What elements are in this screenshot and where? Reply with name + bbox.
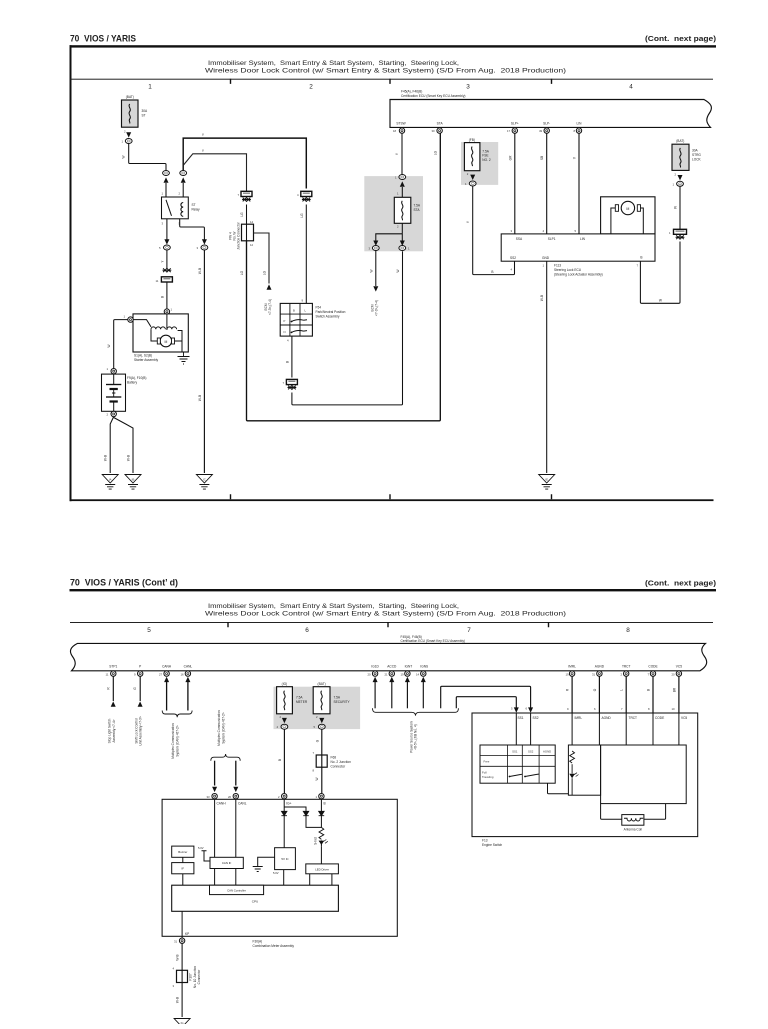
resistor meter [319,827,324,839]
battery label [127,376,146,384]
svg-text:AGND: AGND [602,716,612,720]
arrow right [400,241,405,246]
SS wires inside [516,713,530,745]
wire to relay pin 2 [182,183,184,197]
F58 rotated label [229,221,241,249]
svg-text:STA: STA [414,208,421,212]
svg-text:F54: F54 [316,306,322,310]
svg-text:Immobiliser System, Smart Ent: Immobiliser System, Smart Entry & Start … [208,603,459,610]
svg-text:CANH: CANH [162,665,172,669]
SS2 feed wire [441,686,531,710]
svg-text:W-B: W-B [176,954,180,960]
ground IC [196,475,212,490]
column ticks top [231,79,552,84]
svg-text:21: 21 [385,672,389,676]
svg-text:IA: IA [109,478,112,482]
svg-text:W-B: W-B [198,268,202,274]
branch left to oval [376,234,403,241]
svg-text:Combination Meter Assembly: Combination Meter Assembly [253,944,295,948]
wire R to stop light switch [112,676,114,701]
svg-text:S1(A), S2(B): S1(A), S2(B) [134,354,152,358]
svg-text:<7-3>,(7-4): <7-3>,(7-4) [375,300,379,316]
link E [669,229,687,235]
arrow ECM [373,286,378,291]
branch to diode 2 [284,807,306,811]
header rule bottom [70,589,717,591]
pin numbers above engine switch [567,707,675,711]
wire W starter to battery [114,320,128,369]
svg-text:14: 14 [250,220,254,224]
arrow [400,181,405,186]
wire relay coil to ground column [180,219,205,240]
svg-text:TRCT: TRCT [629,716,638,720]
svg-text:W: W [396,269,400,272]
svg-text:System (CAN) <67-2>: System (CAN) <67-2> [221,712,225,743]
svg-text:(Cont. next page): (Cont. next page) [645,34,717,43]
fuse 7.5A STA [394,197,421,228]
ground IB [125,475,141,490]
svg-text:LIN: LIN [580,237,586,241]
arrow [470,175,475,180]
wire GND to ground [546,261,548,473]
P-N switch label [316,306,346,319]
fuse 7.5A SECURITY [313,687,350,719]
chevrons under link B [242,198,251,202]
engine switch pin labels inside [518,716,688,720]
ECU pin labels [396,121,582,125]
arrow left [373,241,378,246]
svg-text:W-B: W-B [176,997,180,1003]
svg-text:Steering Lock ECU: Steering Lock ECU [554,268,582,272]
wire IF-CPU [182,874,184,885]
meter pin labels inside [217,802,326,806]
svg-text:B: B [160,296,164,298]
svg-text:19: 19 [566,672,570,676]
wire W-B below meter [181,943,183,1017]
svg-text:31: 31 [174,939,178,943]
wire buzzer-IF [182,857,184,862]
connector oval STA top [395,175,406,180]
svg-text:TRCT: TRCT [622,665,631,669]
svg-text:F13: F13 [482,839,488,843]
svg-text:AGND: AGND [543,750,551,754]
battery [102,374,126,411]
shift lock dest label [134,716,142,746]
wire branch to ECM [254,233,270,284]
svg-text:Immobiliser System, Smart Ent: Immobiliser System, Smart Entry & Start … [208,60,459,67]
wire security fuse to F68 [321,729,323,793]
pin numbers SS [511,707,528,711]
svg-text:7.5A: 7.5A [482,149,489,153]
arrow up [138,701,143,706]
wire STSW to STA fuse [401,133,403,174]
svg-text:F30(A): F30(A) [253,940,263,944]
svg-text:70 VIOS / YARIS: 70 VIOS / YARIS [70,33,136,43]
arrows into engine switch [514,707,533,712]
antenna coil wires [601,804,666,820]
wires ECU to engine switch [572,676,679,713]
svg-text:31: 31 [592,672,596,676]
svg-text:LG: LG [433,150,437,155]
svg-text:VC5: VC5 [676,665,682,669]
fuse 30A STRG LOCK (BAT) [672,139,702,176]
wire SLP+ [514,133,516,234]
svg-text:IB: IB [132,478,135,482]
CAN IF box [210,857,243,868]
junction connector F58 [242,220,254,247]
svg-text:B: B [285,361,289,363]
svg-text:VC5: VC5 [681,716,687,720]
steering lock ECU box [501,234,655,261]
power source label [409,721,417,753]
svg-text:6: 6 [305,627,309,634]
brace CAN upper [162,711,192,718]
connector node fuse ST [122,139,133,144]
svg-text:Connector: Connector [331,764,347,768]
power source wires IG1D ACCD IGNT IGNS [373,677,426,709]
certification ECU box [390,100,711,128]
svg-text:12: 12 [250,243,254,247]
combination meter pins [212,794,324,799]
chevrons under link C [302,198,311,202]
svg-text:IF: IF [182,866,185,870]
LED driver to CPU stubs [310,874,332,885]
starter assembly [133,314,188,352]
svg-text:METER: METER [296,700,308,704]
svg-text:IE: IE [545,478,548,482]
svg-text:F45(A), F46(B): F45(A), F46(B) [401,90,422,94]
wire color labels [566,687,677,692]
inner wires to modules [572,713,679,745]
svg-text:LG: LG [240,212,244,217]
svg-text:Connector: Connector [197,969,201,985]
svg-text:10: 10 [672,707,676,711]
LED driver box [306,864,339,874]
ECU3 pin labels [109,665,682,669]
svg-text:5V IC: 5V IC [281,857,288,861]
wire CPU to bottom pin [181,911,183,938]
starter pin circle [164,308,172,315]
wire CANL inside [235,799,237,857]
ground IG bottom [174,1019,190,1029]
svg-text:20: 20 [228,795,232,799]
svg-text:7.5A: 7.5A [334,696,341,700]
svg-text:Battery: Battery [127,380,138,384]
wire FSE to steering lock ECU [473,186,515,275]
svg-text:Buzzer: Buzzer [178,850,187,854]
svg-text:Wireless Door Lock Control (w/: Wireless Door Lock Control (w/ Smart Ent… [205,68,566,75]
header rule / frame top [70,45,717,47]
svg-text:B: B [647,689,651,691]
svg-text:IMRL: IMRL [568,665,576,669]
svg-text:CANL: CANL [184,665,193,669]
brace power source [373,708,459,715]
wire G to shift lock [139,676,141,701]
ECM ref label [371,300,379,316]
svg-text:SECURITY: SECURITY [334,700,351,704]
svg-text:2: 2 [309,84,313,91]
svg-text:IGNS: IGNS [420,665,428,669]
svg-text:19: 19 [401,672,405,676]
arrow ECM ref [267,284,272,289]
svg-text:18: 18 [393,129,397,133]
connector oval meter fuse [277,724,288,729]
frame bottom border [70,499,714,501]
starter left pin [124,315,134,323]
svg-text:W: W [107,344,111,347]
engine switch label [482,839,502,847]
connector oval relay pin2 [180,171,187,176]
link D [283,379,298,385]
svg-text:70 VIOS / YARIS (Cont’ d): 70 VIOS / YARIS (Cont’ d) [70,578,178,588]
svg-text:AGND: AGND [595,665,605,669]
svg-text:IGNT: IGNT [405,665,413,669]
svg-text:<8-5>, (J/B No. 4): <8-5>, (J/B No. 4) [414,724,418,749]
wire CANH to meter [214,761,216,786]
svg-text:17: 17 [507,129,511,133]
CPU box [172,885,339,911]
arrow into connector [126,132,131,137]
svg-text:STRG: STRG [692,153,701,157]
switch table [480,745,555,783]
ground IE [539,475,555,490]
svg-text:(FB): (FB) [469,138,475,142]
svg-text:SS2: SS2 [510,256,516,260]
wire IG+ inside [283,799,285,811]
svg-text:8: 8 [626,627,630,634]
arrow [678,175,683,180]
svg-text:SLP-: SLP- [543,121,550,125]
connector oval A [159,245,170,250]
svg-text:M: M [626,207,629,211]
ECU3 pin circles [111,671,682,676]
svg-text:16: 16 [181,672,185,676]
svg-text:11: 11 [156,279,159,283]
wire Y upper run to P-N switch [183,138,306,188]
wire CANH inside [214,799,216,857]
svg-text:CAN Controller: CAN Controller [227,889,246,893]
certification ECU top label [401,90,465,98]
wire LG upper [246,205,248,241]
svg-text:NO. 2: NO. 2 [482,158,491,162]
battery top pin [107,367,117,374]
svg-text:B: B [324,802,326,806]
svg-text:(IG): (IG) [282,682,288,686]
wire battery to ground IB [114,418,133,474]
starter internal ground [178,352,190,364]
connector oval relay pin1 [163,171,170,176]
svg-text:IC: IC [203,478,206,482]
SS1 feed wire [456,697,516,710]
svg-text:LG: LG [240,270,244,275]
diode 1 [281,811,287,815]
stop light dest label [108,718,116,743]
wire W-B long to ground [203,250,205,473]
wire CANL to meter [235,761,237,786]
svg-text:(Steering Lock Actuator Assemb: (Steering Lock Actuator Assembly) [554,273,603,277]
arrow [282,718,287,723]
svg-text:S-Ind: S-Ind [314,837,318,845]
F107 label rotated [189,966,202,988]
arrow [319,718,324,723]
wire from P-N to STA fuse column [292,251,403,405]
arrow [164,239,169,244]
svg-text:CODE: CODE [655,716,664,720]
title separator [70,622,713,623]
wire Y lower run to ST link [183,154,246,192]
transponder box [601,745,687,804]
svg-text:Antenna Coil: Antenna Coil [624,827,643,831]
svg-text:Unit Assembly <7-3>: Unit Assembly <7-3> [139,716,143,746]
svg-text:27: 27 [159,672,163,676]
svg-text:5.0V: 5.0V [273,871,279,875]
junction connector F107 [173,967,188,988]
connector link A [156,277,173,283]
steering lock motor box [601,197,655,234]
svg-text:(BAT): (BAT) [126,95,134,99]
wire to relay pin 1 [165,183,167,197]
svg-text:5: 5 [147,627,151,634]
svg-text:B: B [491,270,493,274]
gray block meter fuses [274,687,361,729]
svg-text:ST: ST [192,203,196,207]
wire LIN [578,133,580,234]
svg-text:GND: GND [542,256,550,260]
ECU2 bottom pin labels [510,255,642,260]
svg-text:CANL: CANL [238,802,247,806]
fuse 7.5A FSE NO.2 [464,143,490,176]
wire battery to ground IA [110,417,114,473]
wire CANH from ECU [164,677,169,711]
connector oval STA right [399,246,410,251]
IF box [172,863,194,874]
chevrons above link A [163,268,172,272]
svg-text:KP: KP [185,932,189,936]
svg-text:Wireless Door Lock Control (w/: Wireless Door Lock Control (w/ Smart Ent… [205,611,566,618]
svg-text:30: 30 [432,129,436,133]
column ticks [228,622,549,627]
wire fuse to branch [401,223,403,234]
svg-text:14: 14 [416,672,420,676]
wire relay out to starter column [166,219,168,240]
wire 5VIC to CPU [283,870,285,886]
battery bottom pin [107,411,117,416]
svg-text:20: 20 [368,672,372,676]
svg-text:IG+: IG+ [286,802,291,806]
CAN system label 1 [171,723,179,759]
certification ECU box (bottom) [70,643,706,670]
svg-text:3: 3 [466,84,470,91]
svg-text:W-B: W-B [127,455,131,461]
wire B inside [320,799,322,811]
steering lock ECU label [554,264,603,277]
svg-text:1: 1 [148,84,152,91]
svg-text:7.5A: 7.5A [296,696,303,700]
svg-text:L: L [620,689,624,691]
connector oval FSE [465,181,476,186]
svg-text:Starter Assembly: Starter Assembly [134,358,158,362]
svg-text:Engine Switch: Engine Switch [482,843,502,847]
male arrow [164,177,169,182]
svg-text:CODE: CODE [648,665,657,669]
svg-text:FSE: FSE [482,154,488,158]
svg-text:W: W [674,206,678,209]
immobiliser amplifier box [568,745,600,795]
svg-text:M: M [164,340,167,344]
wire LG main to ECU STA [247,133,441,420]
fuse 7.5A METER [277,687,308,719]
svg-text:5.0V: 5.0V [198,846,204,850]
svg-text:(BAT): (BAT) [676,139,684,143]
wire diode1 to 5V IC [283,816,285,848]
svg-text:11: 11 [106,672,109,676]
svg-text:30A: 30A [142,109,149,113]
svg-text:CPU: CPU [252,899,259,903]
connector oval security fuse [314,724,326,729]
svg-text:IMRL: IMRL [575,716,583,720]
wire B to starter [166,282,168,309]
svg-text:Certification ECU (Smart Key E: Certification ECU (Smart Key ECU Assembl… [401,639,465,643]
buzzer box [172,846,194,857]
AGND table to module wire [548,783,569,794]
svg-text:7: 7 [467,627,471,634]
5V stub [198,846,210,861]
chevrons under link D [288,386,297,390]
meter pin numbers [207,795,318,799]
wire LG to P-N switch [305,205,307,304]
combination meter box [162,799,397,936]
svg-text:STA: STA [437,121,444,125]
svg-text:W-B: W-B [104,455,108,461]
svg-text:33: 33 [207,795,211,799]
svg-text:System (CAN) <67-2>: System (CAN) <67-2> [176,725,180,756]
wire Y to link A [166,250,168,269]
svg-text:W: W [659,298,662,302]
arrow [202,239,207,244]
diode 2 [303,811,309,815]
brace CAN lower (opens up) [211,754,240,761]
ECU2 top pin labels [516,237,586,241]
CAN system label 2 [217,710,225,746]
wire W from fuse to relay column [129,144,166,171]
CAN controller box [210,885,264,894]
starter label [134,354,158,362]
svg-text:<7-3>,(7-4): <7-3>,(7-4) [268,299,272,315]
svg-text:7.5A: 7.5A [414,204,421,208]
svg-text:STP1: STP1 [109,665,117,669]
svg-text:W-B: W-B [198,395,202,401]
wire B from P-N switch [291,336,293,377]
connector oval B [197,245,208,250]
svg-text:Free: Free [484,760,490,764]
svg-text:B: B [640,255,642,259]
gray block STA fuse [364,176,423,251]
fuse 30A ST (BAT) [122,95,149,133]
svg-text:SLP1: SLP1 [548,237,556,241]
ECU pin circles [399,128,581,133]
ground IA [102,475,118,490]
svg-text:Switch Assembly: Switch Assembly [316,314,340,318]
svg-text:B: B [278,759,282,761]
gray block FSE fuse [461,142,498,185]
wire CANL from ECU [185,677,190,711]
svg-text:SSA: SSA [516,237,523,241]
svg-text:Park/Neutral Position: Park/Neutral Position [316,310,346,314]
antenna coil [622,815,644,826]
svg-text:(BAT): (BAT) [318,682,326,686]
certification ECU label (bottom) [401,635,465,643]
svg-text:W: W [122,155,126,158]
